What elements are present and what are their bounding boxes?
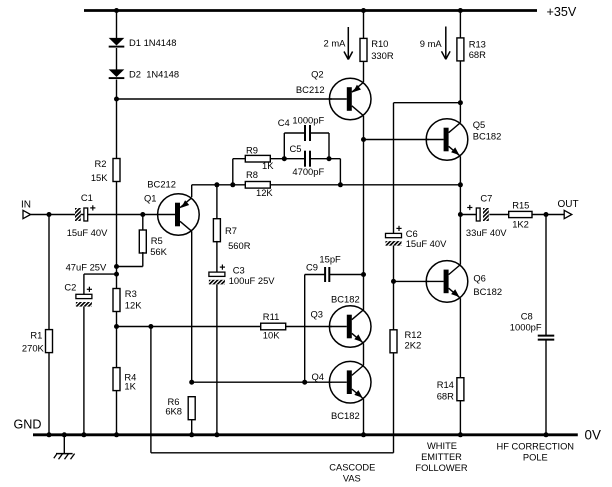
svg-text:POLE: POLE xyxy=(523,452,548,462)
svg-text:C7: C7 xyxy=(480,193,492,204)
label R13 xyxy=(469,39,486,60)
node dot C9 right / VAS line xyxy=(361,272,366,277)
node dot R5 return/bias xyxy=(114,264,119,269)
svg-text:270K: 270K xyxy=(22,343,45,354)
wire C9 right lead xyxy=(329,274,363,276)
resistor R4 xyxy=(113,368,120,391)
annotation HF CORRECTION POLE xyxy=(497,442,574,463)
wire C4 right lead xyxy=(310,133,329,159)
svg-text:IN: IN xyxy=(21,200,31,211)
wire Q2 emitter to R10 xyxy=(363,61,365,82)
svg-text:Q4: Q4 xyxy=(311,371,324,382)
transistor Q5 BC182 (NPN) xyxy=(426,119,468,161)
wire Q5 base xyxy=(364,139,429,141)
node dot Q5 emitter / R8 wire xyxy=(458,182,463,187)
svg-text:C4: C4 xyxy=(278,117,290,128)
transistor Q4 BC182 (NPN) xyxy=(329,361,371,403)
svg-text:R11: R11 xyxy=(263,311,280,322)
wire C6 to R12 xyxy=(393,246,395,330)
node dot Q4 base / C9 line xyxy=(302,380,307,385)
wire Q4 emitter to rail xyxy=(363,399,365,435)
svg-text:560R: 560R xyxy=(228,240,251,251)
svg-text:R15: R15 xyxy=(512,199,529,210)
resistor R12 xyxy=(390,330,397,353)
svg-text:10K: 10K xyxy=(263,330,280,341)
label R4 xyxy=(124,371,136,391)
node dot output tap xyxy=(458,212,463,217)
svg-text:C3: C3 xyxy=(233,264,245,275)
label 9 mA xyxy=(420,38,443,49)
node dot top rail / diode chain xyxy=(114,8,119,13)
svg-text:12K: 12K xyxy=(256,187,273,198)
node dot rail/R6 xyxy=(189,432,194,437)
label R12 xyxy=(405,329,422,350)
wire C2 to rail xyxy=(83,307,85,435)
diode D2 1N4148 xyxy=(109,69,125,78)
label R8 xyxy=(246,169,273,198)
svg-text:BC182: BC182 xyxy=(473,286,502,297)
wire bracket left up xyxy=(150,327,152,453)
wire Q3 emitter to Q4 collector xyxy=(363,343,365,365)
wire C7 to R15 xyxy=(489,214,508,216)
svg-text:Q3: Q3 xyxy=(310,309,323,320)
wire Q1 collector down xyxy=(191,231,193,382)
resistor R2 xyxy=(113,159,120,182)
wire Q1 emitter / R8 run xyxy=(192,184,461,186)
node dot rail/ground symbol xyxy=(62,432,67,437)
svg-text:2K2: 2K2 xyxy=(405,339,422,350)
label C2 xyxy=(64,282,76,293)
svg-text:15uF 40V: 15uF 40V xyxy=(67,227,108,238)
label R1 xyxy=(22,330,45,354)
svg-text:C8: C8 xyxy=(521,311,533,322)
wire +35V top rail xyxy=(84,9,537,12)
node dot top rail / R13 xyxy=(458,8,463,13)
label Q2 xyxy=(296,69,325,96)
svg-text:BC182: BC182 xyxy=(331,410,360,421)
node dot R13 line / C6 tap xyxy=(458,100,463,105)
svg-text:R7: R7 xyxy=(225,225,237,236)
label C1 xyxy=(67,192,108,238)
svg-text:BC182: BC182 xyxy=(331,294,360,305)
svg-text:R10: R10 xyxy=(371,38,388,49)
svg-text:100uF 25V: 100uF 25V xyxy=(229,275,276,286)
node 0V label xyxy=(585,428,601,443)
wire R14 to rail xyxy=(459,401,461,435)
wire R9 run xyxy=(233,158,284,160)
ground symbol xyxy=(54,435,75,460)
input terminal IN xyxy=(23,210,31,218)
svg-text:OUT: OUT xyxy=(558,199,579,210)
capacitor C4 1000pF xyxy=(305,125,310,141)
svg-text:FOLLOWER: FOLLOWER xyxy=(415,463,467,473)
wire Q2 collector down to Q3 xyxy=(363,116,365,310)
wire R7 top lead xyxy=(216,185,218,219)
capacitor C1 xyxy=(60,205,107,222)
label R11 xyxy=(263,311,280,340)
resistor R3 xyxy=(113,289,120,312)
wire R7 to C3 xyxy=(216,241,218,272)
wire Q6 base xyxy=(394,280,429,282)
svg-text:CASCODE: CASCODE xyxy=(329,463,375,473)
wire C5 right stub down xyxy=(339,159,341,185)
wire R5 bottom lead xyxy=(117,252,143,267)
wire R4 to 0V rail xyxy=(116,391,118,435)
wire C4 left lead xyxy=(284,133,305,159)
wire bracket bottom xyxy=(151,452,394,454)
node dot rail/R14 xyxy=(458,432,463,437)
resistor R13 xyxy=(457,38,464,61)
svg-text:68R: 68R xyxy=(437,390,454,401)
label 47uF 25V xyxy=(66,262,107,273)
svg-text:R2: R2 xyxy=(95,158,107,169)
node dot bias / bracket line xyxy=(148,324,153,329)
node dot bias/Q2 base xyxy=(114,97,119,102)
svg-text:47uF 25V: 47uF 25V xyxy=(66,262,107,273)
svg-text:D1 1N4148: D1 1N4148 xyxy=(129,37,176,48)
wire R9 left stub xyxy=(232,159,234,185)
capacitor C9 15pF xyxy=(325,267,329,282)
wire R15 to OUT xyxy=(532,214,564,216)
resistor R6 xyxy=(188,397,195,420)
node dot rail/C3 xyxy=(214,432,219,437)
svg-text:Q1: Q1 xyxy=(144,192,157,203)
node dot top rail / R10 xyxy=(361,8,366,13)
wire D2 to R2 xyxy=(116,80,118,159)
svg-text:15K: 15K xyxy=(91,172,108,183)
node OUT label xyxy=(558,199,579,210)
wire Q6 emitter to R14 xyxy=(459,298,461,378)
wire C3 to rail xyxy=(216,285,218,435)
wire input to Q1 base xyxy=(31,214,158,216)
svg-text:R14: R14 xyxy=(437,379,454,390)
svg-text:BC212: BC212 xyxy=(147,179,176,190)
capacitor C3 xyxy=(202,265,237,286)
svg-text:Q2: Q2 xyxy=(311,69,324,80)
transistor Q1 BC212 (PNP) xyxy=(157,194,199,236)
transistor Q6 BC182 (NPN) xyxy=(426,261,468,303)
label C5 xyxy=(290,143,325,177)
svg-text:33uF 40V: 33uF 40V xyxy=(466,227,507,238)
wire 0V bottom rail xyxy=(33,433,578,436)
node dot output / C8 xyxy=(544,212,549,217)
capacitor C7 xyxy=(467,205,515,222)
annotation CASCODE VAS xyxy=(329,463,375,484)
svg-text:WHITE: WHITE xyxy=(427,441,457,451)
resistor R8 xyxy=(245,182,270,189)
label R6 xyxy=(165,396,182,416)
label C6 xyxy=(406,228,447,249)
label R10 xyxy=(371,38,394,61)
svg-text:330R: 330R xyxy=(371,50,394,61)
svg-text:EMITTER: EMITTER xyxy=(421,452,462,462)
svg-text:R3: R3 xyxy=(125,288,137,299)
node dot Q6 base tap xyxy=(391,279,396,284)
svg-text:Q5: Q5 xyxy=(473,119,486,130)
label Q4 xyxy=(311,371,359,421)
resistor R1 xyxy=(46,330,53,353)
label R5 xyxy=(150,235,167,257)
node GND label xyxy=(14,418,42,432)
wire R13 top xyxy=(459,11,461,38)
label Q3 xyxy=(310,294,359,320)
label C7 xyxy=(466,193,507,238)
label Q1 xyxy=(144,179,176,204)
annotation WHITE EMITTER FOLLOWER xyxy=(415,441,467,473)
current arrow 2 mA xyxy=(344,27,353,60)
resistor R7 xyxy=(213,219,220,242)
wire C2 top lead xyxy=(84,274,117,294)
svg-text:R9: R9 xyxy=(246,144,258,155)
node +35V label xyxy=(547,5,577,19)
node dot C5 right stub xyxy=(338,182,343,187)
wire Q5 emitter down to Q6 collector xyxy=(459,156,461,264)
node IN label xyxy=(21,200,31,211)
label C3 xyxy=(229,264,276,286)
node dot rail/C8 xyxy=(544,432,549,437)
wire Q1 emitter up xyxy=(191,185,193,197)
svg-text:BC212: BC212 xyxy=(296,84,325,95)
node dot Q2 collector / Q5 base xyxy=(361,137,366,142)
svg-text:C1: C1 xyxy=(81,192,93,203)
node dot rail/R1 xyxy=(47,432,52,437)
label C4 xyxy=(278,115,325,129)
node dot C4/C5 right node xyxy=(327,156,332,161)
node dot input/R1 xyxy=(47,212,52,217)
wire R2 to R3 xyxy=(116,182,118,289)
svg-text:1000pF: 1000pF xyxy=(510,322,542,333)
svg-text:D2 1N4148: D2 1N4148 xyxy=(129,69,179,80)
svg-text:Q6: Q6 xyxy=(473,272,486,283)
wire Q3 bias run xyxy=(117,326,332,328)
label C8 xyxy=(510,311,542,333)
wire C6 top run xyxy=(394,103,461,234)
wire R5 top lead xyxy=(142,215,144,231)
resistor R9 xyxy=(245,155,270,162)
svg-text:15pF: 15pF xyxy=(319,254,341,265)
svg-text:R8: R8 xyxy=(246,169,258,180)
diode D1 1N4148 xyxy=(109,38,125,47)
svg-text:15uF 40V: 15uF 40V xyxy=(406,238,447,249)
label R2 xyxy=(91,158,108,183)
label Q6 xyxy=(473,272,502,297)
node dot C4/C5 left node xyxy=(282,156,287,161)
svg-text:9 mA: 9 mA xyxy=(420,38,443,49)
label R3 xyxy=(125,288,142,310)
svg-text:6K8: 6K8 xyxy=(165,406,182,417)
svg-text:1K: 1K xyxy=(262,160,274,171)
wire R10 to rail xyxy=(363,11,365,39)
node dot R7 top xyxy=(214,182,219,187)
node dot rail/Q4 emitter xyxy=(361,432,366,437)
label Q5 xyxy=(473,119,502,141)
svg-text:1000pF: 1000pF xyxy=(292,115,324,126)
wire R3 to R4 xyxy=(116,312,118,368)
svg-text:C2: C2 xyxy=(64,282,76,293)
wire R6 to rail xyxy=(191,420,193,435)
node dot rail/C2 xyxy=(81,432,86,437)
capacitor C6 xyxy=(379,226,414,247)
label D2 xyxy=(129,69,179,80)
svg-text:R5: R5 xyxy=(151,235,163,246)
node dot R9 stub xyxy=(230,182,235,187)
capacitor C2 xyxy=(69,287,104,308)
svg-text:2 mA: 2 mA xyxy=(324,38,347,49)
label R14 xyxy=(437,379,454,401)
capacitor C5 4700pF xyxy=(305,151,310,167)
svg-text:GND: GND xyxy=(14,418,42,432)
svg-text:12K: 12K xyxy=(125,299,142,310)
resistor R15 xyxy=(509,211,532,217)
current arrow 9 mA xyxy=(442,27,451,60)
wire R12 down through rail xyxy=(393,353,395,453)
label D1 xyxy=(129,37,176,48)
node dot C2/bias xyxy=(114,272,119,277)
wire C5 right lead xyxy=(310,158,340,160)
svg-text:56K: 56K xyxy=(150,246,167,257)
wire Q2 base xyxy=(117,98,332,100)
transistor Q2 BC212 (PNP) xyxy=(329,78,371,120)
wire C8 to rail xyxy=(545,340,547,435)
resistor R14 xyxy=(457,378,464,401)
svg-text:68R: 68R xyxy=(469,49,486,60)
node dot Q1 collector / R6 xyxy=(189,380,194,385)
svg-text:1K2: 1K2 xyxy=(512,219,529,230)
label C9 xyxy=(306,254,341,273)
wire top rail to D1 xyxy=(116,11,118,39)
node dot rail/bias chain xyxy=(114,432,119,437)
resistor R10 xyxy=(360,38,367,61)
wire C9 left leads xyxy=(305,275,325,383)
wire output to C7 xyxy=(460,214,476,216)
node dot R3/R4 junction xyxy=(114,324,119,329)
label R9 xyxy=(246,144,274,171)
svg-text:C9: C9 xyxy=(306,262,318,273)
svg-text:C5: C5 xyxy=(290,143,302,154)
svg-text:VAS: VAS xyxy=(343,474,361,484)
svg-text:BC182: BC182 xyxy=(473,130,502,141)
wire C8 top xyxy=(545,215,547,336)
svg-text:R1: R1 xyxy=(30,330,42,341)
wire R1 top xyxy=(48,215,50,330)
label R7 xyxy=(225,225,251,251)
resistor R5 xyxy=(139,230,146,253)
label R15 xyxy=(512,199,529,229)
svg-text:+35V: +35V xyxy=(547,5,577,19)
wire D1 to D2 xyxy=(116,48,118,70)
wire R13 to Q5 collector xyxy=(459,61,461,123)
svg-text:HF CORRECTION: HF CORRECTION xyxy=(497,442,574,452)
svg-text:0V: 0V xyxy=(585,428,601,443)
wire R1 to rail xyxy=(48,353,50,435)
resistor R11 xyxy=(261,323,286,330)
label 2 mA xyxy=(324,38,347,49)
output terminal OUT xyxy=(564,210,572,218)
svg-text:4700pF: 4700pF xyxy=(292,166,324,177)
capacitor C8 1000pF xyxy=(538,336,555,340)
node dot input/R5 xyxy=(140,212,145,217)
wire Q4 base xyxy=(192,381,332,383)
transistor Q3 BC182 (NPN) xyxy=(329,306,371,348)
svg-text:1K: 1K xyxy=(124,380,136,391)
wire C5 left lead xyxy=(284,158,305,160)
